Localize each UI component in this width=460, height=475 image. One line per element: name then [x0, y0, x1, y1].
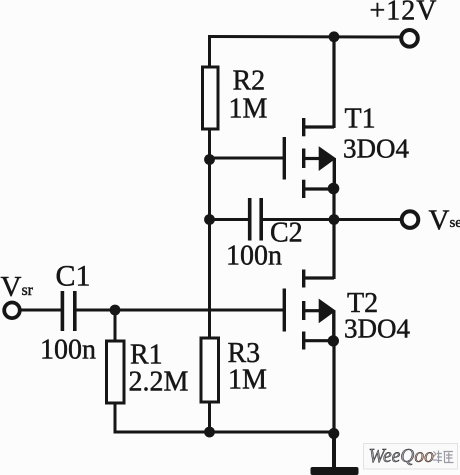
- wire R1 top stub: [114, 310, 117, 341]
- node junction C2 left: [204, 214, 215, 225]
- wire R2 bottom stub: [208, 129, 211, 160]
- input terminal Vsr: [4, 303, 20, 319]
- output terminal Vse: [402, 211, 419, 228]
- node junction top rail / T1 drain: [329, 31, 340, 42]
- svg-text:1M: 1M: [229, 94, 268, 125]
- resistor R1: [107, 341, 125, 403]
- resistor R3: [201, 338, 219, 402]
- svg-text:+12V: +12V: [370, 0, 438, 27]
- wire top +12V rail: [208, 35, 400, 39]
- node junction T1 source: [328, 183, 340, 195]
- node junction ground: [328, 428, 339, 439]
- svg-text:3DO4: 3DO4: [344, 314, 410, 344]
- power terminal +12V: [401, 30, 418, 47]
- wire left rail (gate node down to R3): [208, 160, 211, 339]
- node junction R3 bottom: [204, 427, 215, 438]
- svg-text:3DO4: 3DO4: [343, 134, 409, 164]
- transistor T2: [284, 270, 335, 350]
- wire T1 gate line: [210, 157, 284, 160]
- ground: [311, 467, 359, 475]
- svg-text:2.2M: 2.2M: [129, 367, 189, 398]
- wire Vsr to C1: [20, 309, 61, 312]
- svg-text:T1: T1: [345, 104, 376, 135]
- node junction output: [329, 214, 340, 225]
- wire T1 source to output node: [332, 190, 335, 222]
- capacitor C2: [250, 198, 262, 241]
- resistor R2: [203, 67, 219, 129]
- wire C2 right: [263, 218, 334, 221]
- svg-text:100n: 100n: [40, 335, 96, 366]
- wire T1 drain vertical: [332, 37, 335, 129]
- wire R3 bottom stub: [208, 402, 211, 434]
- svg-text:1M: 1M: [228, 365, 267, 396]
- node junction R2/T1 gate: [204, 154, 215, 165]
- svg-text:R2: R2: [233, 66, 266, 97]
- wire T2 drain vertical: [332, 220, 335, 280]
- wire bottom rail: [114, 431, 335, 434]
- node junction T2 source: [328, 335, 339, 346]
- node junction input/R1: [110, 305, 121, 316]
- wire R1 bottom stub: [114, 403, 117, 434]
- transistor T1: [284, 118, 335, 198]
- svg-text:C1: C1: [56, 260, 91, 293]
- wire R2 top stub: [208, 35, 211, 67]
- watermark WeeQoo: [364, 444, 458, 470]
- wire C2 left: [210, 218, 249, 221]
- wire output to Vse terminal: [334, 218, 400, 221]
- wire T2 source down: [332, 340, 335, 432]
- capacitor C1: [62, 291, 74, 331]
- svg-text:100n: 100n: [226, 241, 282, 272]
- svg-text:WeeQoo: WeeQoo: [369, 446, 435, 467]
- wire C1 to T2 gate: [77, 309, 284, 312]
- wire ground stem: [332, 433, 336, 468]
